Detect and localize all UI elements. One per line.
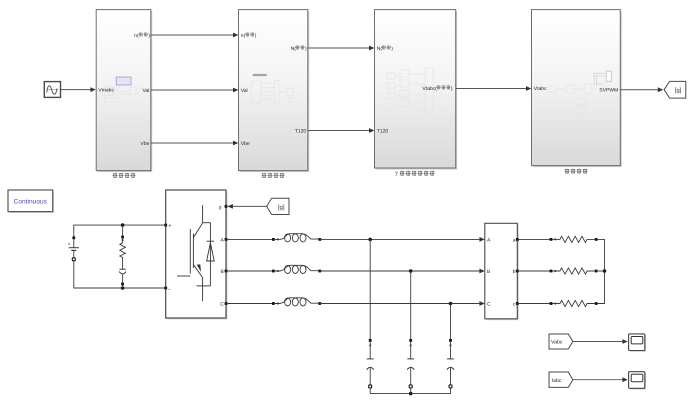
subsystem block 1 (sector judgment) — [96, 10, 152, 173]
svg-text:g: g — [219, 205, 222, 211]
load resistor phase c — [550, 300, 598, 306]
svg-text:T120: T120 — [377, 128, 389, 134]
svg-text:Vtabc(: Vtabc( — [422, 86, 437, 92]
svg-text:Vbe: Vbe — [241, 141, 250, 147]
wire: resistor b to neutral — [596, 269, 606, 273]
wire: phase b to load — [517, 270, 551, 272]
wire: phase c to load — [517, 303, 551, 305]
scope Iabc — [629, 372, 646, 390]
svg-text:N(: N( — [377, 46, 383, 52]
wire: T120 block2 to block3 — [308, 128, 375, 133]
svg-text:Val: Val — [241, 88, 248, 94]
wire: phase a to load — [517, 238, 551, 240]
wire: phase A from inverter — [226, 238, 273, 240]
svg-text:N(: N( — [291, 46, 297, 52]
svg-text:[g]: [g] — [675, 87, 682, 94]
subsystem block 2 (time calculation) — [239, 10, 310, 173]
from tag [g] feeding gate — [228, 198, 290, 214]
scope Vabc — [629, 334, 646, 352]
wire: phase C to measurement — [320, 301, 485, 306]
wire: N(sector) block2 to block3 — [308, 46, 375, 51]
wire: Vbe block1 to block2 — [151, 141, 239, 146]
wire: phase C from inverter — [226, 303, 273, 305]
subsystem block 3 (7-segment time allocation) — [375, 10, 458, 170]
dc voltage source battery — [68, 236, 79, 260]
svg-text:C: C — [487, 302, 491, 308]
from tag Vabc — [549, 334, 573, 349]
wire: Vabc to scope — [573, 339, 628, 344]
capacitor branch phase A — [367, 239, 374, 393]
svg-text:Vmabc: Vmabc — [98, 88, 114, 94]
wire: source to block1 Vmabc — [61, 87, 96, 92]
svg-text:C: C — [220, 301, 224, 307]
load resistor phase a — [550, 236, 598, 242]
label under block4 — [564, 169, 587, 174]
svg-text:b: b — [513, 269, 516, 275]
wire: phase B to measurement — [320, 269, 485, 274]
wire: resistor c to neutral — [596, 272, 604, 304]
svg-text:n(: n( — [241, 33, 246, 39]
three-phase V-I measurement block — [485, 223, 519, 320]
wire: dc bus bottom — [74, 261, 166, 290]
label under block1 — [112, 173, 135, 178]
wire: capacitor neutral bus — [370, 392, 450, 396]
goto tag [g] — [664, 81, 686, 98]
wire: Iabc to scope — [573, 377, 628, 382]
load resistor phase b — [550, 268, 598, 274]
capacitor branch phase B — [407, 271, 414, 394]
wire: phase A to measurement — [320, 237, 485, 242]
svg-text:+: + — [168, 224, 171, 230]
wire: Val block1 to block2 — [151, 88, 239, 93]
svg-text:Continuous: Continuous — [14, 198, 48, 205]
svg-text:Vbe: Vbe — [140, 141, 149, 147]
powergui Continuous block — [8, 190, 54, 213]
svg-text:Val: Val — [143, 88, 150, 94]
svg-text:Vtabc: Vtabc — [534, 86, 547, 92]
inductor phase C — [272, 298, 321, 306]
sine wave source Vmabc — [44, 82, 60, 98]
capacitor branch phase C — [447, 304, 454, 394]
svg-text:[g]: [g] — [278, 204, 285, 211]
rc snubber branch — [119, 225, 126, 288]
svg-text:n(: n( — [134, 33, 139, 39]
svg-text:Iabc: Iabc — [552, 378, 562, 384]
subsystem block 4 (carrier modulation) — [532, 10, 622, 168]
wire: phase B from inverter — [226, 270, 273, 272]
inductor phase B — [272, 265, 321, 273]
wire: resistor a to neutral — [596, 239, 604, 270]
svg-text:+: + — [68, 243, 71, 248]
wire: SVPWM to goto tag — [620, 87, 663, 92]
wire: dc bus top — [74, 223, 166, 237]
label under block3 — [395, 171, 435, 178]
from tag Iabc — [549, 372, 573, 387]
svg-text:T120: T120 — [295, 128, 307, 134]
label under block2 — [261, 173, 284, 178]
wire: n(sector) block1 to block2 — [151, 33, 239, 38]
wire: Vtabc block3 to block4 — [456, 86, 532, 91]
universal bridge (IGBT inverter) block — [164, 190, 227, 319]
svg-text:-: - — [168, 286, 170, 293]
svg-text:a: a — [513, 237, 516, 243]
inductor phase A — [272, 234, 321, 242]
svg-text:Vabc: Vabc — [551, 340, 563, 346]
svg-text:SVPWM: SVPWM — [599, 88, 618, 94]
